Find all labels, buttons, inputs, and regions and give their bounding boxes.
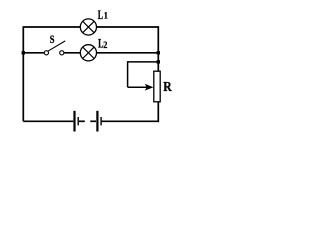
svg-text:L: L <box>98 8 103 22</box>
wire switch to lamp L2 <box>64 52 80 54</box>
wire switch branch left <box>23 52 44 54</box>
node junction right (L2 wire) <box>157 51 160 54</box>
svg-text:R: R <box>163 78 172 94</box>
wire left rail <box>22 26 24 121</box>
switch S <box>44 41 65 55</box>
battery cell 2 short plate <box>100 117 101 125</box>
wire right rail lower <box>157 102 159 122</box>
wire lamp L2 to right rail <box>97 52 159 54</box>
wire slider loop bottom <box>128 86 148 88</box>
svg-text:S: S <box>50 34 55 47</box>
wire bottom rail left <box>23 120 73 122</box>
svg-text:2: 2 <box>103 40 107 51</box>
battery cell 2 long plate <box>96 111 98 132</box>
wire top rail <box>23 26 158 28</box>
label R <box>163 78 172 94</box>
wire slider loop left <box>127 61 129 87</box>
node junction right (slider tap) <box>157 60 160 63</box>
svg-text:1: 1 <box>104 10 108 21</box>
wire battery link dash 1 <box>79 120 85 122</box>
wire right rail upper <box>157 26 159 71</box>
lamp L2 <box>80 45 96 61</box>
label L2 <box>98 37 103 51</box>
slider arrowhead <box>145 84 154 91</box>
label S <box>50 34 55 47</box>
battery cell 1 long plate <box>73 111 75 132</box>
wire battery link dash 2 <box>90 120 96 122</box>
battery cell 1 short plate <box>78 117 79 125</box>
resistor R (rheostat body) <box>154 71 160 102</box>
node junction left (switch branch) <box>22 51 25 54</box>
wire slider loop top <box>128 61 159 63</box>
lamp L1 <box>80 19 96 35</box>
label L1 <box>98 8 103 22</box>
wire bottom rail right <box>102 120 159 122</box>
